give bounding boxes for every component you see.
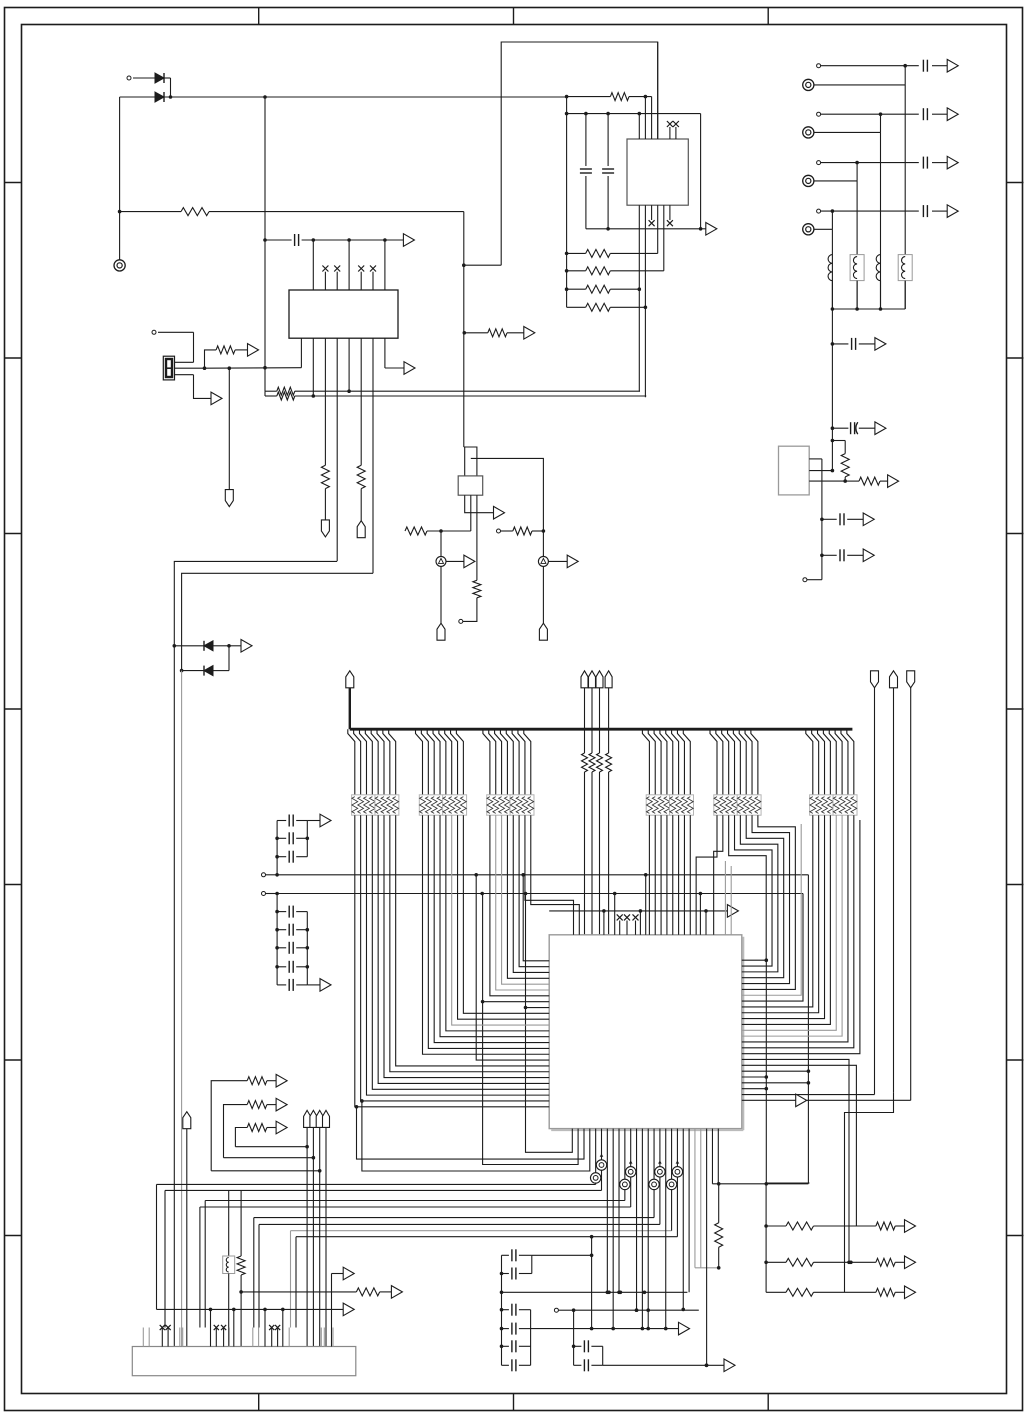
- CON6 stub pins: [143, 1328, 333, 1347]
- node t5: [347, 238, 351, 242]
- U4 gray pins t26-27: [725, 861, 731, 935]
- wire row8: [526, 1007, 550, 1009]
- terminal J-osc: [152, 330, 156, 334]
- U1 bottom pins mid: [313, 338, 373, 573]
- wire y1184 right: [712, 1183, 808, 1185]
- wire fan G3: [483, 729, 531, 795]
- C16 rails: [500, 1255, 532, 1294]
- wire EXTAL-flag: [225, 368, 233, 506]
- resistor R29: [235, 1121, 287, 1147]
- antenna column 3: [856, 163, 858, 309]
- U2 bottom pins: [638, 205, 673, 397]
- wire ant-down: [831, 309, 833, 471]
- op-amp U1 box: [289, 290, 398, 338]
- no-connect xxx pins: [617, 914, 639, 934]
- transistor Q1 box: [458, 476, 483, 495]
- node vcc-junction: [263, 95, 267, 99]
- wire corner x463 upper: [463, 212, 465, 266]
- capacitor bank C8-C10: [275, 814, 331, 875]
- ferrite bead FB1: [223, 1190, 235, 1347]
- capacitor C17: [502, 1268, 532, 1280]
- resistor R16: [497, 527, 546, 535]
- resistor R6: [205, 346, 248, 368]
- resistor R4: [321, 465, 329, 488]
- node U2-t2: [644, 95, 648, 99]
- resistor network RN4A: [646, 795, 670, 815]
- arrow TP2: [548, 555, 578, 568]
- U4 pin t24 stub: [705, 911, 707, 935]
- resistor R7: [265, 387, 640, 395]
- wire xtal-mid: [203, 366, 302, 370]
- terminal J4: [554, 1308, 575, 1312]
- wire v766: [765, 958, 769, 1185]
- wire right feed: [766, 1182, 809, 1184]
- wire xtal-low: [194, 375, 212, 399]
- inductor L2: [850, 255, 864, 281]
- U5 pin2: [809, 469, 834, 473]
- antenna column 2: [880, 114, 882, 309]
- resistor R10: [565, 249, 658, 257]
- resistor R3: [118, 208, 464, 216]
- wire net-B t8: [614, 894, 616, 935]
- resistor network RN1B: [375, 795, 399, 815]
- wire v591: [590, 1235, 594, 1331]
- arrow TP1: [446, 555, 475, 568]
- wire down x174: [173, 646, 175, 1347]
- resistor R9: [565, 93, 652, 101]
- wire y1310: [574, 1308, 699, 1312]
- U1 top pins: [313, 240, 385, 290]
- resistor network RN6A: [810, 795, 834, 815]
- resistors R21-R26: [766, 1220, 915, 1299]
- wire G4 to U4 top: [649, 815, 690, 935]
- resistor R27: [211, 1074, 287, 1170]
- diode D3: [173, 641, 231, 651]
- resistor R30: [237, 1190, 245, 1347]
- terminal J-R17: [459, 619, 463, 623]
- U4 pin t6 stub: [603, 911, 605, 935]
- wire G1-2 route: [361, 815, 550, 1101]
- CON6 no-connects: [160, 1325, 281, 1347]
- address bus left drops: [157, 1184, 297, 1327]
- inductor L3: [876, 255, 880, 281]
- wire G1 staircase: [366, 815, 549, 1095]
- wire row20: [742, 1075, 768, 1079]
- wire xxx net: [549, 909, 727, 913]
- wire netA column: [476, 875, 549, 1060]
- wire left rail x119: [119, 97, 121, 260]
- net flags F9-12: [304, 1110, 330, 1346]
- wire fan G4: [642, 729, 690, 795]
- wire row0 drop: [521, 873, 549, 961]
- wire row22: [742, 1087, 768, 1091]
- resistor network RN2B: [443, 795, 467, 815]
- antenna rows caps: [817, 59, 959, 217]
- wire fan G6: [806, 729, 854, 795]
- wire p1-feed column: [524, 892, 573, 1153]
- wire G5 right staircase: [729, 815, 796, 989]
- inductor L1: [828, 255, 832, 281]
- wire fan G2: [416, 729, 464, 795]
- resistor R28: [224, 1098, 288, 1157]
- wire U1-b4 route: [174, 561, 337, 645]
- wire y1292: [502, 1291, 688, 1295]
- capacitor C3: [602, 112, 614, 231]
- resistor network RN4B: [670, 795, 694, 815]
- resistor R19: [859, 477, 888, 485]
- terminal J2: [262, 873, 278, 877]
- pull-up resistors RP1-3: [581, 671, 603, 935]
- resistor network RN5A: [714, 795, 738, 815]
- capacitor C6: [820, 513, 874, 526]
- resistor R31: [241, 1286, 402, 1299]
- node x463-y265: [462, 263, 466, 267]
- wire row24 arrow: [742, 1094, 911, 1107]
- terminal J-D1: [127, 76, 131, 80]
- resistor R11: [565, 267, 664, 275]
- power flag PF2: [357, 489, 365, 538]
- resistor R20: [715, 1184, 723, 1270]
- wire D3-D4 link: [228, 646, 230, 671]
- wire flag893 drop: [845, 1092, 894, 1292]
- node t2: [312, 238, 316, 242]
- wire row18 drop: [742, 1065, 857, 1226]
- wire fan G5: [710, 729, 758, 795]
- crystal pins: [175, 362, 205, 374]
- wire osc-in: [158, 332, 194, 362]
- diode D4: [180, 666, 229, 676]
- wire net-A t13: [645, 875, 647, 935]
- resistor R5: [357, 465, 365, 488]
- resistor R8: [265, 391, 646, 400]
- resistor network RN1A: [352, 795, 376, 815]
- capacitor C23: [574, 1346, 603, 1371]
- wire net-B drop: [742, 894, 803, 1002]
- capacitor C16: [502, 1249, 532, 1261]
- arrow R14-out: [524, 327, 535, 340]
- wire v856 end: [855, 1225, 857, 1227]
- crystal Y1: [163, 356, 174, 380]
- wire bead jog: [831, 439, 846, 443]
- arrow osc1: [248, 344, 259, 357]
- node b5: [347, 389, 351, 393]
- wire v573: [572, 1310, 576, 1348]
- capacitor bank C18-21: [500, 1292, 531, 1371]
- wire net-A: [275, 873, 808, 877]
- wire r29-link: [235, 1145, 309, 1149]
- wire net-B: [275, 892, 803, 896]
- wire t2 feed: [531, 815, 580, 935]
- resistor R14: [464, 329, 524, 337]
- wire U3 pin line: [471, 458, 544, 531]
- regulator U2 box: [627, 139, 688, 205]
- wire netB row7: [483, 1001, 550, 1003]
- U5 pin1: [809, 459, 822, 580]
- connector ring CON1: [114, 260, 125, 271]
- net flag F6: [890, 671, 898, 1092]
- connector CON6 box: [132, 1347, 355, 1376]
- capacitor C5: [831, 422, 886, 435]
- arrow conn-2: [332, 1267, 355, 1327]
- capacitor C7: [820, 549, 874, 562]
- arrow D3-out: [229, 640, 252, 653]
- U5 pin3: [809, 480, 859, 482]
- connectors CON2-5: [803, 79, 906, 235]
- wire fan G1: [348, 729, 396, 795]
- power flag PF1: [321, 489, 329, 537]
- net flag F5: [871, 671, 879, 1095]
- wire right row6 gray: [742, 824, 801, 995]
- net flag F8: [183, 1112, 191, 1347]
- resistor network RN6B: [833, 795, 857, 815]
- arrow U2-br: [699, 223, 717, 236]
- wire v698: [698, 1309, 700, 1311]
- bus main: [350, 728, 853, 731]
- wire G2 staircase: [423, 815, 550, 1054]
- U2 top pins: [638, 42, 679, 139]
- wire row17 drop: [742, 1059, 851, 1264]
- diode D1: [133, 73, 171, 97]
- wire G6 staircase: [742, 815, 854, 1048]
- node t8: [383, 238, 387, 242]
- capacitor bank C11-C15: [275, 894, 331, 992]
- wire G5 to U4 top: [696, 815, 723, 935]
- wire t1 feed: [525, 815, 574, 935]
- inductor L4: [898, 255, 912, 281]
- wire row19: [742, 1070, 809, 1072]
- wire net-B t23: [699, 894, 701, 935]
- wire G3 staircase: [490, 815, 549, 996]
- resistor R15: [405, 527, 471, 535]
- wire netB column: [481, 894, 578, 1165]
- arrow R19: [888, 475, 899, 488]
- terminal J3: [262, 892, 278, 896]
- arrow y1365: [724, 1359, 735, 1372]
- resistor network RN3B: [510, 795, 534, 815]
- wire top loop: [464, 42, 658, 265]
- resistor R13: [567, 303, 646, 311]
- U1 bottom pins 1+8: [301, 338, 404, 368]
- wire G1-1 route: [355, 815, 549, 1107]
- MCU U4 box: [549, 935, 743, 1130]
- arrow xxx: [727, 905, 738, 918]
- power flag PF3: [437, 566, 445, 640]
- wire row16: [742, 820, 860, 1054]
- wire row21: [742, 1082, 809, 1084]
- resistor R17: [463, 580, 481, 621]
- wire y1328 arrow: [531, 1322, 690, 1335]
- arrow conn-bus: [343, 1303, 354, 1316]
- wire br-rail: [764, 1184, 768, 1293]
- resistor network RN3A: [487, 795, 511, 815]
- wire extra-col2: [360, 1099, 590, 1171]
- antenna column 4: [831, 211, 833, 309]
- wire U5 gnd: [803, 578, 822, 582]
- wire gray-down x181: [181, 671, 183, 1347]
- arrow U1-out: [404, 362, 415, 375]
- wire v845 ends: [844, 1291, 846, 1293]
- wire c16-net: [532, 1254, 594, 1258]
- Q1 bottom pins: [465, 495, 494, 580]
- U4 pin t12 stub: [639, 911, 641, 935]
- resistor network RN2A: [419, 795, 443, 815]
- capacitor C2: [580, 112, 592, 229]
- capacitor C1: [263, 234, 403, 246]
- wire extra-col1: [355, 1105, 584, 1159]
- wire y1365: [603, 1364, 724, 1368]
- wire VIN top: [165, 96, 567, 98]
- node b2: [312, 394, 316, 398]
- capacitor C4: [831, 338, 886, 351]
- wire vertical x265: [264, 97, 266, 391]
- pull-up resistor RP4: [605, 671, 612, 935]
- wire r28-link: [224, 1156, 316, 1160]
- power flag PF4: [539, 566, 547, 640]
- diode D2: [120, 92, 173, 102]
- resistor network RN5B: [737, 795, 761, 815]
- wire v850 junction: [849, 1261, 853, 1265]
- address bus lines: [157, 1184, 678, 1236]
- U2 top rail: [565, 112, 701, 116]
- wire row23 flag: [742, 1094, 875, 1096]
- wire conn-bus: [157, 1308, 344, 1312]
- antenna column 1: [904, 66, 906, 309]
- CON6 fed pins: [211, 1309, 283, 1346]
- wire U3 top jog: [464, 447, 477, 476]
- wire r27-link: [211, 1169, 321, 1173]
- wire x463 mid: [463, 265, 467, 447]
- net flag BUS: [346, 671, 354, 729]
- arrow VOUT1: [403, 234, 414, 247]
- wire arrow conn-2 pin: [331, 1328, 333, 1347]
- test point TP2: [538, 531, 548, 566]
- U2 right rail: [586, 114, 701, 229]
- resistor R18: [841, 441, 849, 483]
- U4 bottom pins: [596, 1129, 721, 1368]
- wire net-A drop: [807, 875, 811, 1184]
- jumpers JP1-8: [590, 1154, 682, 1190]
- capacitor C22: [574, 1340, 603, 1352]
- arrow Q1-out: [494, 506, 505, 519]
- U2 outer rail: [566, 97, 568, 308]
- inductor bottom rail: [831, 281, 906, 311]
- RF module U5 box: [779, 446, 810, 495]
- wire U2-b1 to R7: [638, 390, 641, 392]
- resistor R12: [565, 285, 640, 293]
- test point TP1: [436, 531, 446, 566]
- arrow osc2: [211, 392, 222, 405]
- wire U1-b7 route: [182, 573, 373, 670]
- net flag F7: [907, 671, 915, 1101]
